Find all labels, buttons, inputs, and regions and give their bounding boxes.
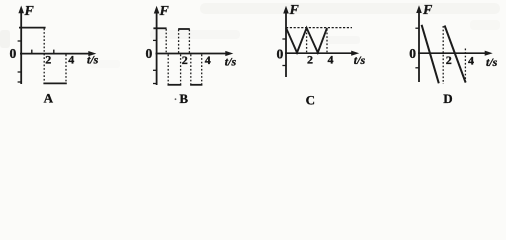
panel B: dotted edge t=1 upper bbox=[165, 29, 167, 53]
panel A: step at -F0 (2 to 4s) bbox=[43, 82, 66, 84]
svg-text:4: 4 bbox=[68, 52, 74, 66]
panel B: dotted edge t=4 lower bbox=[201, 55, 203, 85]
panel A: t axis bbox=[20, 53, 90, 55]
panel C: triangular wave bbox=[286, 28, 327, 53]
svg-text:A: A bbox=[44, 91, 54, 106]
panel D: dotted riser at t=2 bbox=[442, 26, 444, 84]
panel B: F axis arrowhead bbox=[154, 6, 160, 14]
panel A: F axis ticks bbox=[18, 41, 22, 82]
panel C: t axis bbox=[285, 52, 353, 54]
panel A: F axis bbox=[20, 11, 22, 84]
panel A: t axis tick t=1 bbox=[31, 50, 33, 54]
panel D: F axis ticks bbox=[415, 28, 419, 68]
panel B: F axis ticks bbox=[153, 40, 157, 83]
panel C: F axis arrowhead bbox=[283, 6, 289, 14]
panel B: pulse top 0-1s bbox=[153, 27, 166, 29]
panel C: dotted +F0 level line bbox=[286, 27, 352, 29]
svg-text:D: D bbox=[443, 91, 452, 106]
panel D: F axis bbox=[418, 11, 420, 83]
panel B: pulse bottom 1-2s bbox=[168, 84, 182, 86]
panel B: dotted edge t=3 lower bbox=[190, 55, 192, 85]
svg-text:0: 0 bbox=[146, 46, 153, 61]
panel A: step at +F0 (0 to 2s) bbox=[19, 27, 46, 29]
scan speck near caption B bbox=[175, 98, 177, 100]
panel B: dotted edge t=1 lower bbox=[167, 55, 169, 85]
svg-text:2: 2 bbox=[307, 53, 313, 67]
svg-text:t/s: t/s bbox=[486, 55, 498, 69]
panel B: dotted edge t=3 upper bbox=[188, 30, 190, 54]
panel C: dotted drop at t=4 bbox=[326, 29, 328, 53]
svg-text:2: 2 bbox=[182, 53, 188, 67]
svg-text:0: 0 bbox=[409, 46, 416, 61]
svg-text:F: F bbox=[422, 3, 433, 18]
svg-text:t/s: t/s bbox=[354, 53, 366, 67]
svg-text:4: 4 bbox=[328, 53, 334, 67]
svg-text:t/s: t/s bbox=[87, 53, 99, 67]
panel D: F axis arrowhead bbox=[416, 5, 422, 13]
panel D: dotted riser at t=4 bbox=[464, 49, 466, 84]
panel B: F axis bbox=[156, 11, 158, 85]
panel B: pulse top 2-3s bbox=[178, 28, 190, 30]
svg-text:B: B bbox=[179, 91, 188, 106]
panel A: dotted riser at t=4 bbox=[65, 55, 67, 84]
svg-text:2: 2 bbox=[446, 53, 452, 67]
panel D: ramp 2-4s bbox=[445, 26, 466, 83]
svg-text:2: 2 bbox=[45, 52, 51, 66]
panel C: t axis arrowhead bbox=[351, 51, 359, 56]
svg-text:F: F bbox=[24, 4, 35, 19]
svg-text:4: 4 bbox=[205, 53, 211, 67]
panel B: pulse bottom 3-4s bbox=[190, 84, 202, 86]
panel A: t axis tick t=3 bbox=[53, 50, 55, 54]
panel A: F axis arrowhead bbox=[18, 6, 24, 14]
svg-text:F: F bbox=[289, 3, 300, 18]
panel A: dotted drop at t=2 bbox=[43, 29, 45, 84]
panel C: F axis bbox=[285, 11, 287, 77]
panel D: t axis bbox=[418, 52, 487, 54]
panel B: dotted edge t=2 upper bbox=[178, 30, 180, 54]
svg-text:t/s: t/s bbox=[225, 55, 237, 69]
svg-text:0: 0 bbox=[10, 46, 17, 61]
svg-text:0: 0 bbox=[277, 47, 284, 62]
svg-text:C: C bbox=[306, 92, 315, 107]
panel D: t axis arrowhead bbox=[485, 51, 493, 56]
scan background noise bbox=[0, 3, 500, 68]
svg-text:F: F bbox=[159, 4, 170, 19]
panel B: t axis bbox=[156, 53, 228, 55]
panel A: t axis arrowhead bbox=[88, 51, 96, 56]
svg-text:4: 4 bbox=[468, 54, 474, 68]
panel B: t axis arrowhead bbox=[225, 51, 233, 56]
panel D: ramp 0-2s bbox=[422, 25, 439, 84]
panel C: dotted drop at t=2 bbox=[306, 29, 308, 53]
panel B: dotted edge t=2 lower bbox=[180, 55, 182, 85]
panel C: F axis ticks bbox=[282, 39, 286, 66]
